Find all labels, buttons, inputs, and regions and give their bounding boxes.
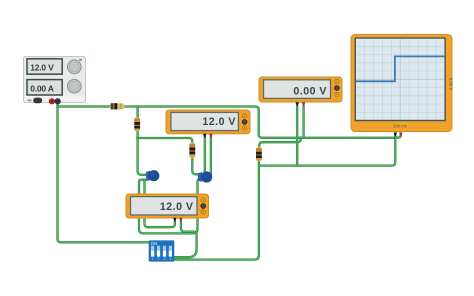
wire: branch from node at (137.6,106.5) down through R2 to capacitor C1 upper lead xyxy=(138,107,148,175)
power supply current knob xyxy=(68,79,82,93)
svg-text:5.00 V: 5.00 V xyxy=(448,78,453,91)
svg-text:12.0 V: 12.0 V xyxy=(160,201,194,213)
multimeter M1 body xyxy=(166,110,250,134)
wire: multimeter M3 black probe to capacitor C1 lower lead xyxy=(145,180,175,228)
svg-text:0.00 V: 0.00 V xyxy=(293,86,327,98)
power supply voltage knob xyxy=(68,59,82,74)
power supply current display 0.00 A xyxy=(27,80,62,95)
wire: branch at (137.6,139.9) right to R3 top xyxy=(137,138,192,144)
svg-text:0.00 A: 0.00 A xyxy=(30,83,54,93)
multimeter M2 red probe xyxy=(302,102,306,106)
power supply red binding post xyxy=(49,99,54,104)
power supply black binding post xyxy=(55,99,60,104)
DIP switch sliders xyxy=(151,246,172,257)
svg-text:12.0 V: 12.0 V xyxy=(202,116,236,128)
capacitor C2 xyxy=(198,171,212,182)
multimeter M3 red probe xyxy=(179,218,183,222)
svg-text:12.0 V: 12.0 V xyxy=(30,63,54,73)
resistor R2 vertical below R1 wire xyxy=(134,117,140,131)
multimeter M1 side buttons xyxy=(242,114,247,130)
power supply PS1 body xyxy=(24,57,86,103)
wire: capacitor C1 lower lead down around under meter M3 and up to capacitor C2 lower lead xyxy=(139,179,200,233)
wire: multimeter M1 black probe down to capacitor C2 xyxy=(204,135,206,174)
wire: multimeter M1 red probe down to capacitor C2 xyxy=(210,135,212,175)
svg-text:200 ms: 200 ms xyxy=(393,124,407,129)
wire: common rail from R4 bottom lead right then up to scope black probe xyxy=(259,135,395,166)
wire: R4 bottom lead down then left to DIP switch right xyxy=(175,155,259,260)
wire: R4 top lead up and right to multimeter M2 red probe junction xyxy=(259,138,301,148)
multimeter M1 black probe xyxy=(203,134,207,138)
multimeter M2 side buttons xyxy=(335,79,340,96)
wire: multimeter M2 red probe down to junction xyxy=(300,105,304,138)
wire: multimeter M3 red probe down right down then left to DIP switch right xyxy=(175,221,197,257)
power supply power button xyxy=(27,98,42,104)
resistor R1 horizontal on supply wire xyxy=(110,103,125,109)
multimeter M2 black probe xyxy=(295,102,299,106)
DIP switch position numbers xyxy=(151,256,172,261)
DIP switch S1 body xyxy=(149,240,175,261)
multimeter M2 body xyxy=(259,77,342,102)
power supply voltage display 12.0 V xyxy=(27,59,62,74)
capacitor C1 xyxy=(146,170,159,181)
resistor R4 vertical below multimeter M2 xyxy=(256,147,262,161)
oscilloscope waveform step trace xyxy=(356,56,445,81)
resistor R3 vertical above capacitor C2 xyxy=(189,143,195,159)
oscilloscope grid xyxy=(356,39,445,120)
oscilloscope black probe xyxy=(394,132,398,137)
svg-text:ON: ON xyxy=(151,241,157,246)
multimeter M3 body xyxy=(126,194,209,218)
oscilloscope red probe xyxy=(399,132,403,137)
wire: multimeter M2 black probe down to common rail xyxy=(296,105,298,166)
wire: supply black post right through R1 to vertical at x=258.7 then H1 to scope red probe xyxy=(58,107,401,138)
multimeter M3 side buttons xyxy=(201,198,206,214)
oscilloscope SCOPE1 body xyxy=(351,35,452,132)
wire: R3 bottom to capacitor C2 upper lead xyxy=(192,158,199,175)
multimeter M1 red probe xyxy=(209,134,213,138)
wire: supply black post to DIP switch left xyxy=(58,103,150,242)
multimeter M3 black probe xyxy=(173,218,177,222)
